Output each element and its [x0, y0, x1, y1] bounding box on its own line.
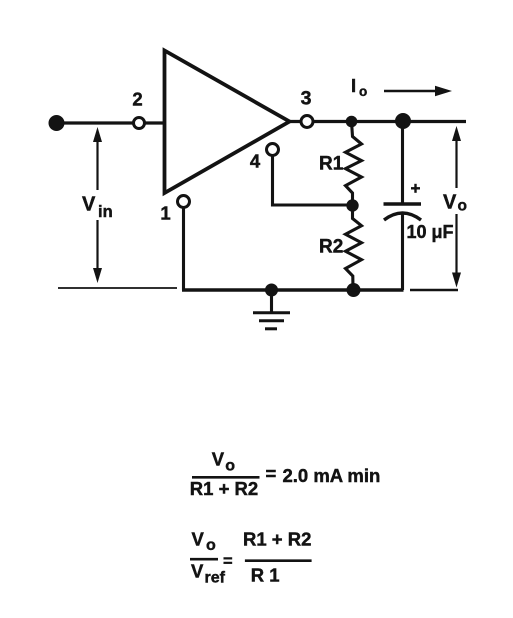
svg-text:R2: R2 [319, 237, 343, 258]
svg-text:V: V [192, 529, 205, 550]
svg-text:R1 + R2: R1 + R2 [243, 529, 311, 550]
ground [253, 290, 290, 329]
resistor R1 label [319, 154, 344, 175]
svg-text:=: = [266, 463, 277, 484]
svg-text:min: min [347, 465, 380, 486]
svg-text:R1 + R2: R1 + R2 [190, 478, 258, 499]
node R1 top junction [346, 116, 358, 128]
node output [395, 113, 411, 129]
Vo label [443, 192, 467, 215]
formula 1: Vo over R1+R2 = 2.0 mA min [190, 449, 380, 500]
wire pin 3 output [289, 120, 466, 123]
svg-text:o: o [458, 198, 467, 215]
svg-text:2: 2 [132, 89, 142, 110]
svg-text:3: 3 [301, 88, 312, 110]
svg-text:V: V [212, 449, 225, 470]
svg-text:2.0 mA: 2.0 mA [283, 465, 344, 486]
node R1-R2 junction [346, 199, 358, 211]
resistor R1 [346, 122, 362, 206]
wire input to pin 2 [56, 121, 163, 124]
pin 2 [134, 118, 145, 129]
Io label [351, 75, 367, 99]
svg-text:in: in [98, 203, 113, 221]
svg-text:=: = [223, 553, 233, 571]
capacitor C1 wire bottom [401, 214, 404, 291]
svg-text:ref: ref [205, 570, 226, 587]
svg-text:o: o [359, 84, 367, 99]
svg-text:R 1: R 1 [251, 565, 280, 586]
node R2 bottom [347, 283, 361, 297]
pin 4 [267, 144, 279, 156]
wire Vo baseline bottom right [410, 289, 458, 292]
pin 2 label [132, 89, 142, 110]
svg-text:I: I [351, 75, 356, 96]
capacitor C1 plus sign [411, 184, 420, 193]
svg-text:R1: R1 [319, 154, 344, 175]
ground node dot [265, 284, 278, 297]
pin 1 [178, 196, 190, 208]
svg-text:V: V [191, 561, 204, 582]
pin 4 label [250, 151, 261, 172]
svg-text:10 μF: 10 μF [407, 222, 454, 242]
pin 1 label [160, 203, 170, 224]
svg-text:V: V [443, 192, 457, 214]
pin 3 label [301, 88, 312, 110]
pin 3 [301, 116, 313, 128]
Vin arrow [93, 127, 102, 283]
wire pin 4 to divider junction [273, 156, 353, 206]
svg-text:o: o [225, 458, 235, 475]
svg-text:V: V [82, 194, 96, 216]
wire pin 1 to ground rail [182, 208, 185, 291]
op-amp U1 [165, 51, 290, 194]
Vin label [82, 194, 113, 222]
wire ground rail thin left segment [58, 287, 177, 289]
svg-text:4: 4 [250, 151, 261, 172]
capacitor C1 [384, 204, 422, 220]
Vo arrow right [452, 126, 461, 288]
svg-text:o: o [206, 537, 216, 554]
wire ground rail [182, 288, 404, 291]
formula 2: Vo over Vref = (R1+R2) over R1 [190, 529, 312, 587]
resistor R2 label [319, 237, 343, 258]
svg-text:1: 1 [160, 203, 170, 224]
resistor R2 [346, 206, 362, 291]
capacitor C1 wire top [401, 121, 404, 203]
Io arrow [384, 86, 452, 97]
capacitor C1 value label [407, 222, 454, 242]
node input terminal [49, 115, 65, 131]
